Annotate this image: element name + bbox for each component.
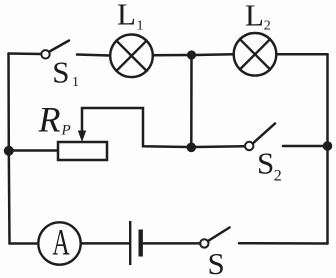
svg-text:L: L (245, 0, 264, 32)
svg-text:2: 2 (274, 168, 282, 185)
wire L1 to node A (153, 54, 188, 57)
node C (S2 branch / right rail junction) (323, 141, 333, 151)
wire L2 to top-right corner (276, 53, 327, 56)
wire right rail upper (corner to node C) (326, 54, 329, 142)
svg-text:A: A (52, 221, 70, 263)
svg-text:R: R (38, 99, 61, 139)
wire bottom-left corner to ammeter (10, 242, 39, 245)
wire right rail lower (node C to bottom-right corner) (326, 150, 329, 244)
node B (wiper / branch junction) (187, 143, 197, 153)
wire node B to switch S2 (196, 145, 245, 148)
svg-text:L: L (117, 0, 136, 32)
rheostat RP body (58, 142, 107, 160)
svg-text:S: S (257, 146, 274, 181)
label L1 (117, 0, 144, 34)
switch S1 (41, 41, 69, 59)
label L2 (245, 0, 271, 33)
svg-text:P: P (61, 123, 71, 139)
lamp L1 (110, 35, 153, 78)
wire node A to lamp L2 (195, 53, 234, 56)
label RP (38, 99, 71, 139)
wire ammeter to battery (81, 242, 129, 245)
wire node A to node B (vertical branch) (190, 59, 193, 143)
battery B1 (130, 221, 141, 265)
switch S2 (245, 124, 275, 151)
switch S (200, 228, 229, 248)
lamp L2 (234, 33, 277, 76)
svg-text:S: S (208, 246, 225, 278)
rheostat wiper arrow (78, 108, 86, 142)
wire S1 to lamp L1 (77, 55, 110, 56)
label S2 (257, 146, 282, 185)
wire S2 to node C (283, 145, 323, 148)
node D (left rail / rheostat junction) (4, 146, 14, 156)
wire battery to switch S (144, 242, 201, 245)
wire bottom-right (switch S to corner) (239, 242, 328, 245)
label S1 (52, 55, 79, 91)
svg-text:1: 1 (137, 19, 144, 34)
svg-text:1: 1 (72, 75, 79, 90)
wire wiper to node B (82, 108, 188, 147)
label S (208, 246, 225, 278)
ammeter A1 (38, 221, 80, 264)
wire top-left corner to switch S1 (9, 52, 42, 55)
wire node D to rheostat RP (13, 149, 57, 152)
wire left rail (9, 54, 10, 244)
node A (L1/L2/branch junction) (187, 50, 196, 59)
svg-text:2: 2 (264, 18, 271, 33)
svg-text:S: S (52, 55, 69, 90)
